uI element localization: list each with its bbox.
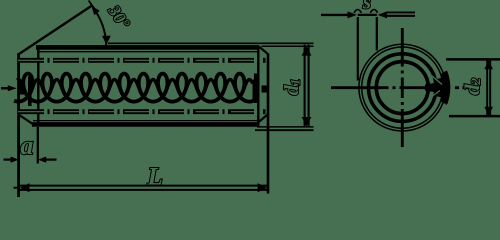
a dim line right tail xyxy=(46,159,57,161)
d1 label xyxy=(281,79,303,96)
chamfer edge bottom-left xyxy=(19,115,34,125)
end view middle coil circle xyxy=(369,54,437,122)
30deg chamfer extension line xyxy=(18,6,93,56)
tilde mark right xyxy=(370,10,377,13)
strip end vertical leg xyxy=(28,77,32,107)
L dim left tail xyxy=(14,187,20,189)
strip end knob at right face xyxy=(262,86,270,93)
d2 bottom extension line xyxy=(449,115,500,118)
lower bore dash-dot line xyxy=(18,109,266,114)
d2 arrowhead down xyxy=(484,107,493,116)
tick across extension line end xyxy=(89,1,95,9)
d2 arrowhead up xyxy=(484,60,493,69)
d2 top extension line xyxy=(446,58,500,61)
a dim line left tail xyxy=(4,159,12,161)
s left extension line (tangent outer circle) xyxy=(357,17,359,81)
d2 dim line (hollow double vertical) xyxy=(486,60,488,116)
seam fill outer band xyxy=(444,73,447,103)
svg-text:L: L xyxy=(147,163,163,190)
d1 top extension line b (top edge extended) xyxy=(262,45,314,47)
pin strip inner line bottom xyxy=(33,120,257,122)
strip end vertical leg right xyxy=(254,74,257,104)
left chamfer boundary line xyxy=(37,46,39,127)
end view inner coil circle xyxy=(376,62,428,114)
d2 label xyxy=(460,78,484,96)
chamfer edge bottom-right xyxy=(257,115,268,124)
angle dimension arc xyxy=(93,7,107,46)
leader arrow at left end face xyxy=(1,87,9,89)
d1 bottom extension line b xyxy=(255,129,314,131)
seam fill middle band xyxy=(438,79,439,97)
coil seam back line: small sine xyxy=(17,79,253,95)
a dim left arrowhead xyxy=(11,157,19,163)
svg-text:a: a xyxy=(20,131,33,160)
vertical centerline xyxy=(401,28,404,147)
coil seam wave: looping trochoid xyxy=(14,74,254,102)
end view outer coil circle xyxy=(360,46,444,130)
seam green slit lower xyxy=(429,91,441,100)
arc arrowhead upper xyxy=(92,6,100,15)
s dim left arrowhead (points right) xyxy=(348,11,357,18)
L dim left arrowhead xyxy=(20,183,30,192)
horizontal centerline xyxy=(331,86,471,89)
arc arrowhead lower (points down to top edge) xyxy=(102,36,111,45)
green separation between end arc and outer circle xyxy=(445,75,447,101)
s dim line middle part xyxy=(358,14,377,16)
seam fill inner band xyxy=(425,84,434,92)
d1 top extension line xyxy=(108,42,314,44)
a dim right arrowhead xyxy=(38,157,46,163)
seam green slit upper xyxy=(432,76,443,85)
d1 bottom extension line a xyxy=(257,126,314,128)
tilde mark left xyxy=(354,10,361,13)
right end face (also extension line for L dim) xyxy=(267,54,270,194)
d1 arrowhead down xyxy=(302,117,312,126)
d1 dim line (hollow double vertical) xyxy=(304,45,306,127)
s dim right arrowhead (points left) xyxy=(378,11,387,18)
left end face (also extension line for a/L dims) xyxy=(17,54,20,198)
pin strip inner line top xyxy=(39,51,258,53)
pin body outline: top edge xyxy=(36,45,260,50)
d1 arrowhead up xyxy=(302,46,312,55)
strip end knob at left face xyxy=(18,84,26,95)
right chamfer boundary line xyxy=(257,46,259,127)
chamfer edge top-right xyxy=(260,47,269,55)
s dim line left part xyxy=(321,14,352,16)
s dim right tail (hollow double) xyxy=(387,11,415,13)
upper bore dash-dot line xyxy=(18,58,266,63)
s right extension line (tangent inner circle) xyxy=(376,17,378,51)
a dim right extension line xyxy=(37,127,39,164)
pin body outline: bottom edge xyxy=(32,122,257,127)
L dim right arrowhead xyxy=(258,183,268,192)
svg-text:s: s xyxy=(362,0,371,13)
L dim line (hollow double) xyxy=(20,185,267,187)
strip outer end arc (seam hook) xyxy=(445,71,448,104)
